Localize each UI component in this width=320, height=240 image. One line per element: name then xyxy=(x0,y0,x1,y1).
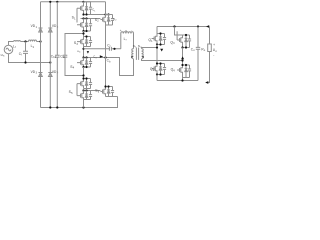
wire Q3 drain riser xyxy=(175,27,183,36)
node Q1 top diode xyxy=(159,32,161,34)
wire bottom rail xyxy=(41,97,118,108)
current arrow on middle rail xyxy=(100,55,103,58)
node mid rail a S2 diode xyxy=(107,13,109,15)
node Q2 bottom diode xyxy=(159,73,161,75)
switch Q4 MOSFET xyxy=(177,65,191,78)
node Q3 bottom xyxy=(181,46,183,48)
capacitor Cb1 xyxy=(55,55,60,57)
svg-text:-: - xyxy=(131,28,132,32)
switch S1 upper MOSFET xyxy=(77,2,92,15)
node Q1 bottom diode xyxy=(159,43,161,45)
diode VD1 xyxy=(39,28,43,32)
AC source u_s xyxy=(4,45,13,54)
transformer T secondary winding xyxy=(142,49,144,59)
svg-text:+: + xyxy=(213,43,215,47)
wire Q1 drain riser xyxy=(156,27,158,34)
wire middle rail xyxy=(84,58,134,76)
wire Cr corner up xyxy=(120,34,122,49)
node Q2 top diode xyxy=(159,62,161,64)
node middle rail Cb tap xyxy=(104,56,106,58)
resistor RL branch xyxy=(206,27,211,83)
switch S2 MOSFET xyxy=(100,15,114,26)
wire mid rail a xyxy=(84,14,109,16)
wire source top lead xyxy=(9,42,14,46)
capacitor Co branch xyxy=(196,27,200,81)
polarity dot primary xyxy=(131,56,133,58)
node tank tap xyxy=(82,48,84,50)
wire Lb to bridge xyxy=(37,41,41,43)
switch Q3 MOSFET xyxy=(177,31,191,47)
transformer T primary winding xyxy=(132,49,134,59)
node S6 top diode xyxy=(107,85,109,87)
wire output top bus xyxy=(157,26,210,28)
wire S2 drain up xyxy=(105,2,107,15)
switch S1 lower MOSFET xyxy=(77,19,92,32)
switch S4 MOSFET xyxy=(77,58,92,68)
wire diode leg 1 xyxy=(40,2,42,108)
wire output bottom bus xyxy=(157,80,198,82)
capacitor Cb2 xyxy=(63,55,68,57)
node S4 bottom bus xyxy=(82,66,84,68)
inductor Lb xyxy=(29,40,37,42)
current arrow at S3 bottom xyxy=(87,51,89,54)
switch S5 upper MOSFET xyxy=(77,79,92,89)
node mid rail a S1 xyxy=(82,13,84,15)
node bottom rail S5 leg xyxy=(82,106,84,108)
wire Cb leg down xyxy=(105,58,107,87)
wire lower pair rail to S6 gate xyxy=(84,90,101,92)
node B flying tap xyxy=(82,74,84,76)
capacitor Cf xyxy=(23,42,28,63)
node secondary bottom junction xyxy=(181,59,183,61)
wire S3 to mid rail xyxy=(83,47,85,58)
inductor Lr xyxy=(121,32,134,34)
node top rail VD2 xyxy=(49,1,51,3)
node Lb-VD1 junction xyxy=(39,40,41,42)
wire diode leg 2 xyxy=(49,2,51,108)
node middle rail diode xyxy=(85,56,87,58)
wire S5 to bottom rail xyxy=(83,100,85,108)
node S5 top bus xyxy=(82,77,84,79)
wire Q1 midpoint xyxy=(156,45,158,64)
node leg bus diode bottom xyxy=(85,30,87,32)
current arrow secondary top xyxy=(160,49,163,52)
node leg bus S1 bottom xyxy=(82,30,84,32)
node S5 top diode xyxy=(85,77,87,79)
node bottom bus Q4 xyxy=(181,79,183,81)
diode VD4 xyxy=(48,73,52,77)
inductor Lf xyxy=(14,40,21,43)
wire Q3 midpoint xyxy=(182,48,184,66)
wire source bottom lead / AC return xyxy=(9,54,51,63)
node Cf tap xyxy=(24,40,26,42)
wire secondary bottom lead xyxy=(142,59,183,61)
node Q4 top diode xyxy=(185,64,187,66)
node top bus Q3 xyxy=(173,25,175,27)
diode VD2 xyxy=(48,28,52,32)
node mid rail a diode xyxy=(85,13,87,15)
node S3 top bus xyxy=(85,35,87,37)
diode VD3 xyxy=(39,73,43,77)
wire flying link lower xyxy=(65,57,84,75)
node middle rail S4 xyxy=(82,56,84,58)
wire S5 gate tie xyxy=(76,84,78,96)
switch Q1 MOSFET xyxy=(152,34,167,45)
wire S2 source down xyxy=(105,25,107,58)
node lower pair rail diode xyxy=(85,89,87,91)
node Q3 bottom diode xyxy=(185,46,187,48)
wire left bus rail upper xyxy=(56,2,58,56)
node bottom rail left bus xyxy=(56,106,58,108)
switch S6 MOSFET xyxy=(100,87,117,97)
wire Q2 source riser xyxy=(156,75,158,81)
node Q4 top xyxy=(181,64,183,66)
current arrow RL return xyxy=(205,81,208,84)
node Q2 top xyxy=(156,62,158,64)
svg-text:-: - xyxy=(213,54,214,58)
wire flying link upper xyxy=(65,34,84,56)
transformer core xyxy=(136,48,138,60)
node secondary top junction xyxy=(156,46,158,48)
node top rail left bus xyxy=(56,1,58,3)
current arrow output bus xyxy=(206,25,209,28)
wire Lr to transformer xyxy=(133,34,135,49)
svg-text:+: + xyxy=(120,28,122,32)
switch S3 MOSFET xyxy=(77,37,92,47)
node Q1 bottom xyxy=(156,43,158,45)
node Cr right xyxy=(113,48,115,50)
node Cf bottom junction xyxy=(24,61,26,63)
wire left bus rail lower xyxy=(56,57,58,107)
node AC return to VD2 leg xyxy=(49,61,51,63)
node lower pair rail S5 xyxy=(82,89,84,91)
node S6 top xyxy=(104,85,106,87)
capacitor Cr xyxy=(84,47,121,51)
node mid rail b S1b xyxy=(82,17,84,19)
wire S1 bottom to node A xyxy=(83,31,85,37)
wire Lf to Lb xyxy=(21,41,29,43)
wire top rail xyxy=(41,1,106,3)
node S4 bottom diode xyxy=(85,66,87,68)
wire S1 gate tie xyxy=(76,8,78,22)
node top rail S1 xyxy=(82,1,84,3)
wire mid rail b to S2 gate xyxy=(81,18,101,20)
wire Q4 source riser xyxy=(182,78,184,81)
node A flying tap xyxy=(82,32,84,34)
switch Q2 MOSFET xyxy=(152,64,167,75)
switch S5 lower MOSFET xyxy=(77,91,92,100)
node Q2 bottom xyxy=(156,73,158,75)
wire secondary top lead xyxy=(142,48,158,49)
node mid rail b diode xyxy=(85,17,87,19)
polarity dot secondary xyxy=(142,56,144,58)
node Q3 top diode xyxy=(185,34,187,36)
current arrow secondary bottom xyxy=(181,56,184,59)
node bottom rail VD2 leg xyxy=(49,106,51,108)
wire S4 to node B xyxy=(83,67,85,79)
node top bus Co xyxy=(197,25,199,27)
node mid rail a S2 drain xyxy=(104,13,106,15)
